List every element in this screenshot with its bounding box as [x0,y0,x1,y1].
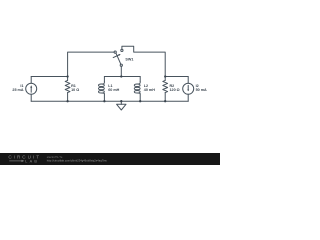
arrowhead I2 [187,90,189,92]
wire switch top to right section [122,46,165,76]
wire switch bottom to middle rail [120,66,122,76]
inductor L1 [103,77,105,82]
svg-text:LAB: LAB [25,159,39,163]
wire middle top rail [104,76,140,78]
arrowhead I1 [30,85,32,87]
inductor L2 [139,77,141,82]
svg-text:SW1: SW1 [125,57,133,61]
svg-text:electro79 / fe: electro79 / fe [47,155,63,159]
resistor R1 [67,77,69,81]
svg-text:50 mA: 50 mA [196,88,207,92]
junction node L2 bottom [139,100,141,102]
arrowhead SW1 toggle [118,54,120,56]
junction node R1 bottom [66,100,68,102]
wire R1 up to switch [68,52,115,76]
svg-text:40 mH: 40 mH [144,88,155,92]
logo LAB [9,160,21,162]
junction node L1 bottom [103,100,105,102]
svg-text:http://circuitlab.com/c6mb234g: http://circuitlab.com/c6mb234g46ub8ztq2e… [47,159,107,163]
junction node R2 bottom [164,100,166,102]
resistor R2 [164,77,166,81]
junction node R1 top [66,75,68,77]
wire top-left rail [31,76,67,78]
current source I2 [183,83,194,94]
footer bar [0,153,220,165]
junction node ground [120,100,122,102]
ground [120,101,122,104]
svg-text:60 mH: 60 mH [108,88,119,92]
current source I1 [26,83,37,94]
wire top-right rail [165,76,188,78]
switch SW1 [114,51,116,53]
svg-text:25 mA: 25 mA [12,88,23,92]
junction node switch/middle rail [120,75,122,77]
svg-text:10 Ω: 10 Ω [71,88,79,92]
svg-text:120 Ω: 120 Ω [170,88,180,92]
junction node R2 top [164,75,166,77]
wire bottom rail [31,100,188,102]
